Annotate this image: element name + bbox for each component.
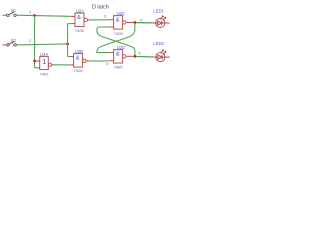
junction EN: [66, 43, 69, 46]
pin U2C output: [126, 21, 135, 23]
NAND U2B: [74, 49, 87, 73]
svg-text:5: 5: [140, 18, 142, 22]
wire feedback Q to U2D input1: [97, 23, 135, 52]
pin U3A input1: [35, 60, 40, 62]
pin U2B input2: [70, 64, 74, 66]
wire U2B out to U2D input2: [89, 60, 110, 62]
svg-text:2: 2: [29, 39, 31, 43]
LED1: [137, 8, 170, 27]
switch S2: [3, 38, 17, 46]
junction Qbar: [134, 55, 137, 58]
wire EN vertical: [67, 24, 69, 57]
junction S1 branch: [33, 14, 36, 17]
svg-text:7400: 7400: [75, 28, 85, 33]
inverter U3A (7402): [40, 52, 52, 76]
junction U3A input: [33, 60, 36, 63]
wire feedback Qbar to U2C input2: [97, 27, 135, 56]
svg-text:7400: 7400: [114, 64, 124, 69]
svg-text:1: 1: [43, 59, 47, 66]
wire Qbar to LED2: [135, 56, 154, 58]
svg-text:7400: 7400: [114, 31, 124, 36]
wire S1 to U2A input1: [16, 15, 70, 16]
svg-text:&: &: [76, 56, 80, 62]
pin U2C input2: [109, 26, 113, 28]
pin U3A input2: [37, 67, 40, 69]
wire U2A out to U2C input1: [90, 19, 110, 21]
NAND U2A: [75, 9, 88, 33]
pin U2D input2: [110, 60, 114, 62]
svg-text:LED2: LED2: [153, 41, 164, 46]
pin U2C input1: [110, 19, 114, 21]
pin U2B output: [86, 60, 89, 62]
pin U2A output: [88, 19, 91, 21]
svg-text:&: &: [116, 52, 120, 58]
LED2: [137, 41, 170, 62]
pin U2B input1: [70, 56, 73, 58]
pin U3A output: [52, 64, 54, 66]
wire vertical to U3A: [34, 16, 36, 68]
svg-text:1: 1: [29, 10, 31, 14]
NAND U2D: [114, 45, 126, 69]
wire Q to LED1: [135, 22, 154, 24]
wire corner to U3A input2: [35, 67, 37, 69]
svg-text:7400: 7400: [74, 68, 84, 73]
svg-text:6: 6: [139, 52, 141, 56]
svg-text:&: &: [116, 18, 120, 24]
svg-text:3: 3: [104, 14, 106, 18]
NAND U2C: [114, 11, 126, 36]
svg-text:7402: 7402: [40, 71, 50, 76]
junction Q: [134, 21, 137, 24]
wire EN to U2B input1: [68, 56, 71, 58]
wire U3A out to U2B input2: [54, 64, 71, 66]
svg-text:D latch: D latch: [92, 5, 109, 11]
wire EN to U2A input2: [68, 23, 71, 25]
wire S2 to EN junction: [16, 44, 67, 45]
pin U2A input1: [70, 15, 75, 17]
pin U2A input2: [71, 23, 75, 25]
switch S1: [3, 8, 17, 17]
pin U2D input1: [110, 52, 114, 54]
svg-text:LED1: LED1: [153, 8, 164, 13]
svg-text:&: &: [77, 15, 81, 21]
pin U2D output: [126, 55, 135, 57]
svg-text:4: 4: [106, 62, 108, 66]
